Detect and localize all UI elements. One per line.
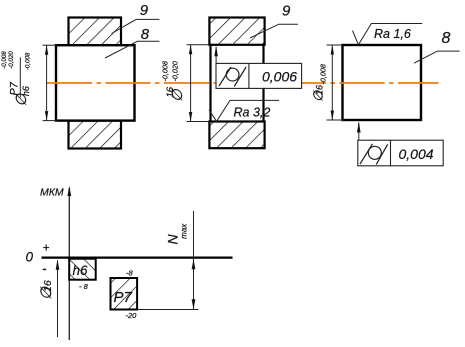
svg-text:-20: -20 — [126, 311, 138, 320]
svg-text:0,004: 0,004 — [399, 146, 434, 162]
svg-text:P7: P7 — [9, 81, 21, 95]
svg-text:-0,008: -0,008 — [1, 51, 8, 69]
leader 9 (fig2) — [250, 24, 298, 38]
hub bore right edge (fig2) — [262, 44, 264, 123]
leader 9 (fig1) — [112, 19, 160, 33]
svg-text:0,006: 0,006 — [262, 68, 297, 84]
svg-text:h6: h6 — [21, 86, 31, 96]
svg-text:8: 8 — [141, 26, 150, 43]
svg-text:16: 16 — [165, 86, 176, 97]
svg-text:-0,008: -0,008 — [160, 61, 169, 81]
svg-text:-8: -8 — [126, 269, 133, 278]
dimension fig3 arrow up — [331, 45, 334, 55]
svg-text:h6: h6 — [73, 263, 89, 278]
svg-text:16: 16 — [42, 280, 54, 292]
dimension fig1 fit text Ø16 P7/h6 — [1, 51, 32, 107]
zero line — [42, 257, 233, 259]
dimension fig3 extension bottom — [327, 119, 346, 121]
dimension fig2 extension top — [187, 44, 210, 46]
dimension fig1 extension top — [43, 44, 58, 46]
axis arrow — [67, 186, 71, 196]
svg-text:9: 9 — [140, 2, 149, 19]
svg-text:0: 0 — [26, 250, 34, 265]
tolerance frame (fig3) — [358, 140, 443, 166]
svg-text:Ra 1,6: Ra 1,6 — [374, 27, 411, 41]
hub bore left edge (fig2) — [209, 44, 211, 123]
diameter label Ø16 (bottom) — [38, 280, 55, 300]
dimension fig3 arrow down — [331, 111, 334, 121]
dimension fig1 extension bottom — [43, 120, 58, 122]
dimension fig2 arrow down — [189, 112, 192, 122]
tolerance frame leader (fig2) — [215, 47, 217, 63]
tolerance frame leader arrow (fig3) — [357, 122, 361, 133]
dimension fig1 arrow down — [45, 111, 48, 121]
cylindricity symbol (fig2) — [226, 68, 239, 81]
axis (bottom diagram) — [68, 188, 70, 340]
dimension fig2 arrow up — [189, 45, 192, 55]
svg-text:МКМ: МКМ — [40, 187, 64, 199]
tolerance frame (fig2) — [216, 63, 302, 88]
P7 bottom level line — [137, 309, 198, 311]
cylindricity symbol (fig3) — [368, 146, 381, 159]
dimension fig2 extension bottom — [187, 121, 210, 123]
dimension fig1 arrow up — [45, 45, 48, 55]
hub section bottom (fig2) — [209, 122, 264, 149]
leader 8 (fig1) — [105, 41, 159, 58]
svg-text:- 8: - 8 — [79, 282, 89, 291]
tolerance frame leader arrow (fig2) — [214, 46, 218, 57]
diameter leader arrow — [56, 259, 60, 270]
svg-text:-0,020: -0,020 — [8, 51, 15, 69]
svg-text:9: 9 — [282, 3, 291, 20]
dimension fig1 line — [46, 45, 48, 120]
shaft (fig3) — [343, 45, 422, 120]
svg-text:max: max — [180, 223, 189, 239]
tolerance frame leader (fig3) — [358, 123, 360, 141]
svg-text:Ra 3,2: Ra 3,2 — [234, 106, 271, 120]
P7 tolerance zone box — [111, 278, 138, 310]
svg-text:P7: P7 — [114, 289, 133, 306]
svg-text:N: N — [165, 234, 181, 245]
Nmax dimension line — [193, 211, 195, 310]
dimension fig3 line — [331, 45, 333, 120]
h6 tolerance zone box — [69, 259, 96, 280]
dimension fig2 text Ø16 -0,008 -0,020 — [160, 61, 186, 102]
centerline — [47, 82, 439, 84]
dimension fig2 line — [190, 45, 192, 122]
svg-text:8: 8 — [442, 30, 451, 47]
svg-text:-0,008: -0,008 — [319, 64, 328, 84]
svg-text:+: + — [43, 241, 50, 255]
svg-text:-0,008: -0,008 — [25, 52, 32, 70]
hub section top (fig2) — [209, 18, 264, 45]
hub section top (fig1) — [69, 18, 122, 46]
roughness Ra 1,6 symbol (fig3) — [353, 24, 423, 45]
svg-text:-0,020: -0,020 — [170, 61, 179, 81]
Nmax arrow up — [192, 259, 196, 269]
shaft (fig1) — [56, 45, 135, 120]
Nmax arrow down — [192, 299, 196, 309]
diameter leader (bottom) — [57, 261, 59, 338]
svg-text:-: - — [42, 261, 47, 276]
svg-text:16: 16 — [315, 85, 325, 95]
leader 8 (fig3) — [414, 51, 460, 63]
roughness Ra 3,2 symbol (fig2 bore) — [209, 100, 279, 121]
dimension fig3 text Ø16 -0,008 — [311, 64, 328, 102]
Nmax label — [165, 223, 189, 245]
dimension fig3 extension top — [327, 44, 344, 46]
hub section bottom (fig1) — [69, 121, 122, 149]
